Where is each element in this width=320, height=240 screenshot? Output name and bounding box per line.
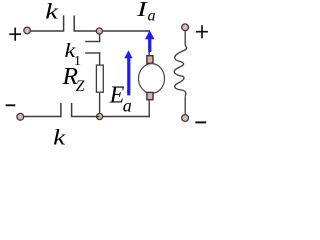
- wire junction to k1: [99, 34, 101, 43]
- wire bottom middle: [72, 116, 100, 118]
- field winding wire bottom: [184, 96, 186, 114]
- emf arrow Ea (blue): [124, 50, 132, 95]
- svg-text:a: a: [148, 8, 156, 25]
- svg-text:k: k: [45, 0, 59, 24]
- switch k (top) right contact: [73, 16, 75, 32]
- label + (left source positive): [9, 28, 21, 41]
- field winding wire top: [184, 31, 186, 46]
- wire resistor to bottom junction: [99, 93, 101, 114]
- terminal left +: [24, 27, 31, 34]
- wire bottom left: [21, 116, 61, 118]
- label + (field positive): [196, 25, 208, 38]
- svg-text:I: I: [136, 0, 149, 21]
- switch k1 bottom plate: [85, 52, 100, 54]
- terminal right - (field): [182, 115, 189, 122]
- terminal left -: [17, 113, 24, 120]
- svg-text:k: k: [53, 125, 67, 150]
- wire top left: [28, 30, 64, 32]
- wire top middle to corner: [74, 30, 150, 32]
- field winding coil: [174, 46, 186, 97]
- svg-text:a: a: [123, 96, 132, 116]
- wire motor bottom drop: [148, 100, 150, 117]
- wire bottom (junction to motor): [100, 116, 150, 118]
- node junction top: [96, 28, 102, 34]
- svg-text:Z: Z: [76, 78, 85, 95]
- motor armature circle: [139, 64, 165, 94]
- current arrow Ia (blue): [145, 30, 155, 52]
- label - (left source negative): [6, 104, 16, 106]
- motor brush (bottom): [147, 92, 153, 99]
- wire armature top drop: [148, 30, 150, 56]
- resistor RZ: [96, 65, 103, 92]
- node junction bottom: [97, 113, 103, 119]
- motor brush (top): [147, 56, 153, 64]
- switch k (bottom) right contact: [71, 103, 73, 117]
- switch k (top) left contact: [63, 16, 65, 32]
- label - (field negative): [195, 121, 206, 123]
- switch k (bottom) left contact: [60, 103, 62, 117]
- switch k1 top plate: [85, 41, 100, 43]
- wire k1 to resistor: [99, 52, 101, 65]
- terminal right + (field): [182, 24, 189, 31]
